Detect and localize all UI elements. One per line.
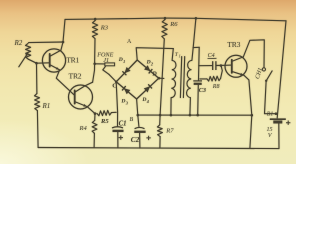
svg-text:15: 15 — [267, 127, 273, 133]
svg-text:R6: R6 — [169, 21, 178, 28]
svg-text:4: 4 — [146, 99, 149, 104]
svg-text:R1: R1 — [42, 102, 51, 110]
svg-text:R8: R8 — [212, 84, 220, 90]
svg-text:R5: R5 — [100, 118, 109, 125]
svg-text:J1: J1 — [103, 57, 109, 64]
svg-text:C1: C1 — [119, 121, 127, 128]
svg-text:D: D — [146, 60, 151, 66]
svg-text:C: C — [112, 83, 117, 90]
svg-text:TR2: TR2 — [69, 72, 82, 81]
svg-text:TR3: TR3 — [227, 40, 240, 49]
svg-text:R2: R2 — [14, 39, 23, 47]
svg-text:B: B — [130, 117, 134, 123]
svg-text:1: 1 — [123, 59, 125, 64]
svg-text:D: D — [141, 97, 146, 103]
svg-text:R7: R7 — [165, 128, 174, 135]
svg-text:A: A — [127, 39, 132, 45]
svg-text:C2: C2 — [131, 136, 140, 144]
svg-text:D: D — [120, 99, 125, 105]
svg-text:C3: C3 — [199, 87, 206, 94]
svg-text:1: 1 — [179, 54, 181, 59]
svg-text:2: 2 — [150, 61, 153, 66]
svg-text:TR1: TR1 — [66, 55, 79, 64]
svg-text:R3: R3 — [100, 24, 109, 31]
svg-text:D: D — [118, 57, 123, 63]
svg-text:C4: C4 — [208, 52, 215, 59]
svg-text:R4: R4 — [79, 125, 88, 132]
svg-text:3: 3 — [125, 100, 128, 105]
svg-text:D: D — [151, 71, 157, 77]
svg-text:B1: B1 — [267, 112, 274, 118]
